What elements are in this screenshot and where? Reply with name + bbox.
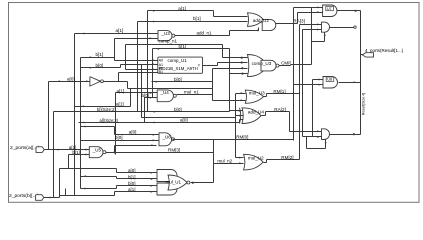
wire mux4 sel row [307, 148, 326, 150]
wire bundle row2 jog [116, 177, 118, 179]
arrow b0 row111 [154, 111, 156, 113]
wire aoi in4 [115, 191, 157, 193]
wire addU4 in3 riser [239, 120, 241, 123]
label U8 box [326, 77, 334, 81]
wire U6 in3 [115, 145, 157, 147]
wire addU4 in2 riser [235, 116, 237, 118]
wire bus x299 [299, 25, 301, 160]
wire comp_n1 riser [222, 45, 224, 58]
wire U6 in1 jog [114, 127, 116, 135]
gate comp_U3 out [261, 60, 276, 71]
svg-text:b[0]: b[0] [115, 135, 123, 140]
svg-text:mul_U3: mul_U3 [249, 91, 265, 96]
svg-text:_U5: _U5 [92, 147, 102, 152]
arrow a0 inv [59, 80, 61, 82]
wire RM[2] jog [266, 160, 268, 163]
wire bus x312 [312, 80, 314, 137]
arrow aoi in1 [151, 172, 153, 174]
wire U6 in3 riser [114, 146, 116, 153]
arrow U4 in2 [150, 97, 152, 99]
arrow port a [58, 149, 60, 151]
svg-text:Result[Size:4]: Result[Size:4] [362, 93, 366, 115]
svg-text:b[1]: b[1] [96, 52, 104, 57]
wire inv out [104, 81, 128, 83]
svg-text:comp_U3: comp_U3 [252, 61, 272, 66]
wire U4 in1 [116, 92, 159, 94]
wire bundle row2 [81, 176, 117, 178]
gate mul_U3 [245, 90, 263, 103]
gate mux2 [322, 22, 330, 32]
wire inv out row2 [128, 88, 213, 90]
svg-text:U7: U7 [327, 7, 332, 11]
wire a[0] inv input [49, 81, 90, 83]
wire bundle row3 [81, 188, 117, 190]
wire addU4 in1 [230, 110, 244, 112]
wire U6 in1 [115, 134, 159, 136]
gate mul_U1 or [168, 175, 187, 190]
arrow U6 in1 [153, 134, 155, 136]
svg-text:a[0]: a[0] [129, 130, 137, 135]
wire vertical net x125 [125, 45, 127, 70]
wire riser x151 [152, 81, 153, 83]
junction mul_U1 out [192, 182, 194, 184]
svg-text:b[0]: b[0] [96, 63, 104, 68]
wire CMP sel row [312, 41, 325, 43]
wire Result bus [360, 11, 362, 135]
wire bundle row1 jog [116, 169, 118, 173]
arrow a[1] [153, 10, 155, 12]
arrow mux4 in1 [317, 130, 319, 132]
arrow U7 in2 [317, 11, 319, 13]
arrow U8 in1 [319, 79, 321, 81]
wire RM[2] net [267, 159, 300, 161]
wire riser x65 [65, 189, 67, 196]
wire riser x229 down [229, 49, 231, 112]
svg-text:RM[0]: RM[0] [236, 135, 248, 140]
svg-text:Y: Y [198, 62, 201, 67]
svg-text:add_n1: add_n1 [197, 30, 213, 35]
svg-text:a[0]: a[0] [128, 168, 136, 173]
svg-text:a[1]: a[1] [128, 187, 136, 192]
wire RA[2] net [266, 111, 290, 113]
arrow compA1 [153, 63, 155, 65]
arrow compA0 [153, 59, 155, 61]
wire vertical net x130 [130, 89, 132, 107]
svg-text:b[0]: b[0] [174, 107, 182, 112]
arrow aoi in2 [151, 178, 153, 180]
wire net a1 row106 [75, 106, 131, 108]
svg-text:a[0]: a[0] [67, 77, 75, 82]
wire RM[1] net [267, 93, 300, 95]
wire mulU3 in1 [236, 93, 246, 95]
wire a[1] net top [148, 10, 214, 12]
label U7 box [326, 6, 334, 10]
wire b[0] row67 [81, 67, 121, 69]
wire mul_n1 row2 [213, 100, 246, 102]
wire RA[2] out [262, 115, 266, 117]
svg-text:a[1]: a[1] [116, 102, 124, 107]
junction compU3 in3 [241, 67, 243, 69]
wire U8 in2 [294, 84, 323, 86]
arrow b[1] [153, 21, 155, 23]
svg-text:a[1]: a[1] [116, 28, 124, 33]
wire compA0 wire [115, 60, 158, 62]
junction compY [241, 61, 243, 63]
wire mux4 out [330, 134, 361, 136]
junction U7 out [355, 10, 357, 12]
gate U8 [323, 77, 338, 89]
arrow row106 [83, 105, 85, 107]
wire riser x141 [141, 65, 143, 118]
arrow add_n1 [257, 29, 259, 31]
wire aoi in1 [117, 172, 157, 174]
svg-text:a[0]: a[0] [180, 118, 188, 123]
arrow U3 in2 [150, 37, 152, 39]
wire RA[2] drop [289, 112, 291, 132]
arrow row2 [85, 175, 87, 177]
svg-text:mul_U2: mul_U2 [248, 156, 264, 161]
svg-text:b[0]: b[0] [142, 93, 150, 98]
wire RA[2] jog [265, 112, 267, 116]
wire add_n1 entry [258, 28, 260, 31]
port b tag [36, 195, 44, 201]
svg-text:b[1]: b[1] [128, 174, 136, 179]
wire compU3 in4 [230, 73, 248, 75]
wire mulU3 in1 riser [235, 94, 237, 116]
wire mulU2 in1 [236, 157, 244, 159]
arrow addU4 in2 [239, 115, 241, 117]
svg-text:_U3: _U3 [161, 31, 171, 36]
wire mux4 in1 [290, 131, 322, 133]
wire a[1] into U3 [75, 33, 159, 35]
wire vertical net x144 [144, 98, 146, 123]
wire U5 in2 riser [68, 155, 70, 169]
svg-text:RA[3]: RA[3] [293, 19, 305, 24]
arrow b1 row57 [90, 56, 92, 58]
wire addU4 in2 [236, 115, 244, 117]
wire RA[3] riser [297, 13, 299, 24]
gate add_U2 or [248, 13, 264, 27]
wire bus x293 [293, 8, 295, 141]
gate add_U4 [240, 108, 241, 124]
gate mul_U1 and1 [157, 170, 177, 182]
gate mul_U2 [244, 154, 264, 170]
arrow row3 [85, 188, 87, 190]
gate mux4 [322, 129, 330, 140]
arrow mulU3 in2 [241, 99, 243, 101]
junction compU3 in1 [241, 57, 243, 59]
wire mux4 sel riser [325, 140, 327, 149]
wire mux4 sel drop [306, 137, 308, 149]
wire mul_n1 net [177, 94, 213, 96]
svg-text:mul_n1: mul_n1 [184, 90, 199, 95]
wire comp_n1 net [126, 44, 223, 46]
wire compY jog [217, 63, 219, 66]
wire compY row [218, 62, 248, 64]
inverter bubble [101, 80, 104, 83]
wire add_n1 net [175, 35, 230, 37]
wire b0 up riser x212 [212, 69, 214, 101]
svg-text:4_ports(Result[1...): 4_ports(Result[1...) [365, 48, 404, 53]
wire port-b bus x74 [74, 34, 76, 196]
wire mul_U1 out [191, 182, 214, 184]
svg-text:b[0]: b[0] [128, 181, 136, 186]
wire U6 in2 [81, 140, 159, 142]
wire compB0 wire [126, 69, 158, 71]
svg-text:mul_n2: mul_n2 [217, 158, 232, 163]
wire mux2 in2 [303, 29, 322, 31]
inverter U_inv [90, 77, 101, 87]
arrow a[1] U3 [84, 33, 86, 35]
arrow a0 row122 [154, 122, 156, 124]
wire RM[1] out [264, 96, 267, 98]
arrow U6 srcrow [85, 126, 87, 128]
port Result tag [362, 53, 373, 57]
svg-text:mul_U1: mul_U1 [166, 179, 182, 184]
arrow aoi in3 [151, 185, 153, 187]
wire add_n1 riser [229, 31, 231, 36]
wire U3 lower input [115, 38, 159, 40]
wire U6 drop x213 [213, 140, 215, 183]
svg-text:CMP: CMP [281, 61, 291, 66]
svg-text:RM[1]: RM[1] [273, 89, 285, 94]
gate comp_U3 or [248, 55, 269, 77]
wire U6 in1 srcrow [81, 126, 115, 128]
wire b[1] row49 [153, 48, 230, 50]
wire CMP riser [311, 8, 313, 65]
wire mux2 in1 [300, 24, 322, 26]
wire a[1] jog down [213, 11, 215, 17]
wire bundle row1 [60, 168, 117, 170]
wire RM[1] jog [266, 94, 268, 97]
svg-text:b[1]: b[1] [179, 44, 187, 49]
wire mux4 in2 [303, 136, 322, 138]
gate U5 [89, 147, 103, 158]
arrow compB0 [153, 68, 155, 70]
junction compU3 in4 [241, 73, 243, 75]
wire compA1 wire [121, 64, 158, 66]
wire b[1] net top [138, 21, 248, 23]
arrow mulU3 in1 [241, 92, 243, 94]
wire inv out drop [127, 82, 129, 89]
arrow U5 in1 [86, 149, 88, 151]
svg-text:a[1]: a[1] [117, 88, 125, 93]
svg-text:RM[3]: RM[3] [168, 148, 180, 153]
wire aoi in3 [117, 185, 157, 187]
svg-text:add_U4: add_U4 [248, 110, 265, 115]
wire CMP net [279, 65, 291, 67]
wire row117 [142, 117, 236, 119]
wire RM[2] out [264, 162, 267, 164]
svg-text:b[](Size:2): b[](Size:2) [97, 107, 116, 112]
wire riser x118 inv [118, 73, 120, 82]
block comp_U1 [158, 57, 203, 73]
wire bus x302 [302, 30, 304, 137]
junction RM3 U6 [114, 151, 116, 153]
svg-text:comp_n1: comp_n1 [159, 38, 178, 43]
wire CMP row [291, 64, 312, 66]
svg-text:RA[2]: RA[2] [274, 107, 286, 112]
gate U3 [158, 31, 172, 41]
arrow port b [50, 197, 52, 199]
gate U4 [157, 90, 173, 102]
arrow U4 in1 [150, 92, 152, 94]
wire b[1] row57 [81, 57, 115, 59]
wire a-size2 bus [79, 122, 240, 124]
wire port tap [361, 54, 363, 56]
wire b[0] row81 [152, 81, 213, 83]
wire port-b riser x53 [53, 112, 55, 198]
wire RM[3] net [106, 152, 214, 154]
svg-text:U8: U8 [327, 78, 332, 82]
svg-text:comp_U1: comp_U1 [168, 58, 188, 63]
arrow inv in [86, 80, 88, 82]
arrow aoi in4 [151, 191, 153, 193]
arrow U6 in3 [151, 144, 153, 146]
svg-text:_U6: _U6 [162, 134, 172, 139]
wire compU3 in3 [213, 68, 248, 70]
svg-text:2_ports(a([...): 2_ports(a([...) [10, 145, 40, 151]
arrow mux2 in1 [317, 23, 319, 25]
wire b-size2 bus [54, 111, 230, 113]
wire port b lower row [60, 195, 115, 197]
wire port-b bus x80 [80, 58, 82, 189]
wire mul_n2 net [214, 163, 244, 165]
wire riser x152 [152, 49, 154, 98]
wire port a net [45, 149, 90, 151]
wire U4 in2 [145, 97, 159, 99]
wire a[1] into OR [214, 16, 248, 18]
wire compU3 in1 [223, 57, 248, 59]
arrow mulU2 in1 [239, 157, 241, 159]
arrow b0 row67 [90, 67, 92, 69]
arrow mulU2 in2 [239, 162, 241, 164]
gate add_U2 and [262, 20, 276, 31]
wire vertical net x137 [137, 22, 139, 112]
wire U8 out [339, 82, 361, 84]
svg-text:RM[2]: RM[2] [281, 155, 293, 160]
svg-text:b[0]: b[0] [174, 77, 182, 82]
svg-text:RD21B_X1M_A9TH: RD21B_X1M_A9TH [159, 66, 197, 71]
connector mux2 out [354, 26, 356, 28]
wire U8 in1 [313, 79, 323, 81]
wire aoi in2 [117, 178, 157, 180]
svg-text:a[1]: a[1] [178, 6, 186, 11]
arrow a-size2 [84, 122, 86, 124]
wire CMP sel riser [324, 33, 326, 42]
wire RA[3] net [276, 23, 298, 25]
arrow U8 in2 [319, 84, 321, 86]
arrow b0 row81 [156, 81, 158, 83]
wire vertical net x147 [147, 11, 149, 112]
svg-text:_U4: _U4 [160, 90, 170, 95]
wire RM[0] net [173, 139, 294, 141]
arrow mux4 sel [325, 141, 327, 143]
wire compB1 wire [119, 72, 158, 74]
wire U5 in2 [69, 154, 90, 156]
arrow mux2 sel [324, 34, 326, 36]
wire CMP jog [290, 65, 292, 66]
junction mux4 out [353, 133, 355, 135]
wire bus x235 down [235, 118, 237, 158]
wire U7 in2 row [298, 12, 323, 14]
arrow U6 in2 [153, 139, 155, 141]
arrow b1 row49 [158, 48, 160, 50]
gate U6 [159, 133, 172, 146]
wire riser x115 [115, 93, 117, 155]
wire port-a bus x48 [48, 82, 50, 150]
wire bundle row4 jog [114, 192, 116, 196]
svg-text:add_U2: add_U2 [253, 18, 270, 23]
wire riser x114 comp [114, 39, 116, 61]
port a tag [36, 147, 44, 153]
arrow U8 out [354, 81, 356, 83]
arrow addU4 in1 [239, 110, 241, 112]
wire add_n1 row2 [230, 30, 259, 32]
wire bundle row1 riser [59, 169, 61, 198]
gate U7 [323, 5, 337, 17]
svg-text:b[1]: b[1] [193, 16, 201, 21]
arrow U5 in2 [86, 154, 88, 156]
wire bundle row3 jog [116, 186, 118, 189]
wire port b net [44, 197, 60, 199]
arrow mux2 in2 [317, 29, 319, 31]
gate mul_U1 and2 [157, 183, 177, 195]
wire compY out [203, 65, 218, 67]
arrow U7 in1 [317, 6, 319, 8]
wire addU4 in3 [240, 119, 244, 121]
svg-text:2_ports(b([...): 2_ports(b([...) [9, 193, 39, 199]
wire mux2 out [330, 27, 354, 29]
arrow mux4 in2 [317, 136, 319, 138]
wire riser x120 comp [120, 65, 122, 68]
wire U7 out [337, 10, 361, 12]
wire U7 in1 row [294, 7, 323, 9]
